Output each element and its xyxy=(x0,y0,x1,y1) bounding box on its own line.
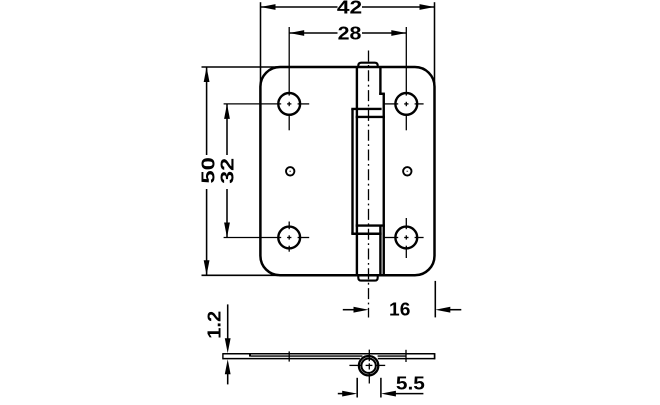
dimension 42: dimension line xyxy=(261,6,435,8)
dimension 50: dimension line xyxy=(206,67,208,275)
svg-text:5.5: 5.5 xyxy=(396,373,425,394)
barrel centerline (dash-dot) xyxy=(368,51,370,318)
dimension 28: arrowheads xyxy=(289,30,304,36)
dimension 50: extension lines xyxy=(202,67,279,275)
side view: knuckle centerlines xyxy=(349,350,385,384)
dimension 28: dimension line xyxy=(289,32,406,34)
centerlines hole bottom-left xyxy=(224,222,310,252)
dimension 1.2: dimension line upper xyxy=(227,304,229,340)
centerlines hole bottom-right xyxy=(384,218,423,258)
screw hole top-right xyxy=(395,93,417,115)
side view: overlapping leaf middle line xyxy=(251,355,363,357)
side view: plate right end xyxy=(434,353,436,359)
dimension 32: dimension line xyxy=(226,104,228,238)
side view: screw center tick right xyxy=(405,350,407,362)
barrel bottom cap xyxy=(358,275,377,281)
side view: screw center tick left xyxy=(288,351,290,361)
centerlines hole top-left xyxy=(224,27,310,130)
hinge knuckle / barrel lines xyxy=(351,67,385,275)
dimension 16: extension line right xyxy=(434,281,436,318)
barrel top cap xyxy=(358,63,377,68)
screw hole top-left xyxy=(278,93,300,115)
dimension 1.2: dimension line lower xyxy=(227,372,229,384)
dimension 5.5: arrows and tails xyxy=(338,393,344,395)
dimension 50: arrowheads xyxy=(204,67,210,82)
side view: leaf plate bottom line xyxy=(223,358,360,360)
side view: leaf junction xyxy=(249,354,251,357)
side view: plate left end xyxy=(222,353,224,359)
svg-text:32: 32 xyxy=(217,158,238,184)
svg-text:16: 16 xyxy=(389,298,410,319)
svg-text:42: 42 xyxy=(337,0,362,17)
screw hole bottom-right xyxy=(395,227,417,249)
centerlines hole top-right xyxy=(384,27,423,130)
svg-text:28: 28 xyxy=(338,22,362,43)
screw hole bottom-left xyxy=(278,227,300,249)
svg-text:1.2: 1.2 xyxy=(204,311,225,339)
small pilot hole right xyxy=(403,167,411,175)
side view: knuckle outer circle xyxy=(359,356,378,375)
dimension 5.5: extension lines xyxy=(357,378,381,398)
dimension 16: arrows and tails xyxy=(343,309,356,311)
dimension 42: arrowheads xyxy=(261,4,276,10)
svg-text:50: 50 xyxy=(198,157,219,184)
small pilot hole left xyxy=(286,167,294,175)
dimension 1.2: arrowheads xyxy=(225,338,231,353)
hinge body outline (top view) xyxy=(260,67,434,275)
side view: knuckle inner circle xyxy=(361,359,375,373)
side view: leaf plate top line xyxy=(223,353,435,355)
dimension 42: extension lines xyxy=(261,2,435,87)
dimension 32: arrowheads xyxy=(224,104,230,119)
